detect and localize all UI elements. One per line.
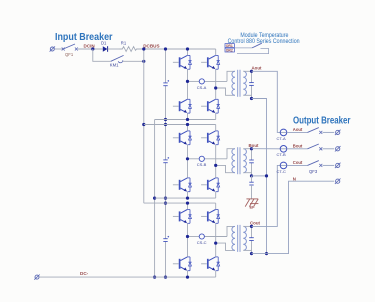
wire bridge A bottom rail bbox=[155, 119, 216, 121]
label DCBUS bbox=[143, 44, 159, 49]
output terminal A bbox=[335, 130, 341, 135]
node C return bbox=[250, 252, 253, 255]
svg-text:CS-A: CS-A bbox=[197, 85, 207, 90]
node bbox=[186, 47, 189, 50]
wire Aout to CT-A bbox=[252, 71, 281, 132]
label CS-A bbox=[197, 85, 207, 90]
title Input Breaker bbox=[55, 32, 113, 43]
svg-text:Cout: Cout bbox=[293, 160, 303, 165]
wire bbox=[93, 49, 111, 61]
wire top rail bbox=[144, 48, 216, 50]
svg-text:Cout: Cout bbox=[250, 221, 261, 226]
wire phase C1 bbox=[188, 226, 235, 236]
wire bbox=[287, 148, 308, 150]
DC- terminal bbox=[34, 275, 39, 280]
node bbox=[164, 118, 167, 121]
capacitor CC output filter bbox=[249, 238, 254, 241]
title Control 880 Series Connection bbox=[228, 38, 300, 45]
breaker QF3 pole B bbox=[308, 144, 323, 150]
transformer TB bbox=[232, 147, 246, 174]
wire bus DC+ distribution bbox=[143, 49, 145, 203]
node bbox=[214, 86, 217, 89]
node bbox=[186, 80, 189, 83]
transistor QB3 igbt bbox=[173, 178, 192, 192]
node Cout bbox=[250, 225, 253, 228]
node bbox=[164, 123, 167, 126]
svg-text:QF1: QF1 bbox=[65, 52, 74, 57]
diode D1 bbox=[103, 46, 108, 52]
node bbox=[265, 174, 268, 177]
node bbox=[142, 47, 145, 50]
wire Bout to CT-B bbox=[252, 148, 281, 150]
wire phase A2 bbox=[216, 88, 235, 95]
wire phase A1 bbox=[188, 71, 235, 81]
capacitor C3 dc-link bbox=[163, 236, 169, 242]
node bbox=[164, 197, 167, 200]
breaker QF3 pole A bbox=[308, 128, 323, 134]
node bbox=[164, 276, 167, 279]
node A return bbox=[250, 97, 253, 100]
wire secondary column bbox=[251, 71, 253, 98]
wire bbox=[323, 164, 335, 166]
node B return bbox=[250, 174, 253, 177]
wire bridge B bottom rail bbox=[155, 197, 216, 199]
svg-text:CT-A: CT-A bbox=[277, 136, 286, 141]
svg-text:DCBUS: DCBUS bbox=[143, 44, 159, 49]
wire bridge A right leg bbox=[215, 49, 217, 120]
contact thermostat bbox=[252, 43, 262, 48]
wire hook bbox=[237, 49, 269, 54]
transistor QB1 igbt bbox=[173, 131, 192, 145]
label D1 bbox=[101, 41, 107, 46]
wire bbox=[287, 164, 308, 166]
wire bridge C left leg bbox=[187, 203, 189, 277]
node bbox=[164, 47, 167, 50]
current sensor CS-C bbox=[199, 234, 204, 239]
capacitor C1 dc-link bbox=[163, 80, 169, 86]
transistor QB4 igbt bbox=[201, 178, 220, 192]
node bbox=[153, 276, 156, 279]
svg-text:CT-B: CT-B bbox=[277, 152, 286, 157]
transistor QA4 igbt bbox=[201, 99, 220, 113]
node bbox=[186, 118, 189, 121]
label Cout bbox=[293, 160, 303, 165]
wire bbox=[287, 131, 308, 133]
svg-text:KM1: KM1 bbox=[110, 63, 119, 68]
label Bout bbox=[249, 143, 260, 148]
svg-text:DC-: DC- bbox=[80, 271, 89, 276]
node bbox=[153, 197, 156, 200]
label Bout bbox=[293, 143, 303, 148]
node bbox=[214, 242, 217, 245]
svg-text:D1: D1 bbox=[101, 41, 107, 46]
node bbox=[186, 197, 189, 200]
wire bbox=[243, 226, 251, 250]
current sensor CS-B bbox=[199, 156, 204, 161]
node Bout bbox=[250, 147, 253, 150]
label QF3 bbox=[309, 169, 318, 174]
wire bus return distribution bbox=[154, 120, 156, 278]
label DCIN bbox=[84, 44, 96, 49]
node bbox=[186, 157, 189, 160]
node Aout bbox=[250, 70, 253, 73]
label CT-A bbox=[277, 136, 286, 141]
transistor QC1 igbt bbox=[173, 210, 192, 224]
label EF bbox=[250, 205, 256, 210]
wire secondary column bbox=[251, 226, 253, 253]
node bbox=[186, 123, 189, 126]
input terminal bbox=[50, 46, 55, 51]
wire DC- rail bbox=[39, 276, 215, 278]
ground EF chassis bbox=[245, 199, 258, 207]
connector OR1 bbox=[225, 44, 234, 48]
wire bridge B right leg bbox=[215, 125, 217, 199]
capacitor C2 dc-link bbox=[163, 157, 169, 163]
transistor QA3 igbt bbox=[173, 99, 192, 113]
wire bbox=[234, 47, 252, 49]
wire phase B2 bbox=[216, 165, 235, 172]
wire secondary column bbox=[251, 149, 253, 176]
wire phase B1 bbox=[188, 149, 235, 159]
transistor QC4 igbt bbox=[201, 257, 220, 271]
node DCIN junction bbox=[91, 47, 94, 50]
title Output Breaker bbox=[293, 116, 351, 127]
svg-text:CS-B: CS-B bbox=[197, 162, 207, 167]
label KM1 bbox=[110, 63, 119, 68]
label QF1 bbox=[65, 52, 74, 57]
svg-text:N: N bbox=[293, 176, 296, 181]
wire bbox=[251, 176, 253, 182]
svg-text:Control 880 Series Connection: Control 880 Series Connection bbox=[228, 38, 300, 45]
wire Cout to CT-C bbox=[252, 165, 281, 226]
capacitor CA output filter bbox=[249, 83, 254, 86]
wire bbox=[243, 149, 251, 173]
label R1 bbox=[121, 41, 127, 46]
wire bbox=[323, 131, 335, 133]
output terminal N bbox=[335, 179, 341, 184]
node bbox=[214, 164, 217, 167]
wire bridge C right leg bbox=[215, 203, 217, 277]
node bbox=[186, 235, 189, 238]
label DC- bbox=[80, 271, 89, 276]
node bbox=[265, 252, 268, 255]
label Aout bbox=[252, 66, 263, 71]
title Module Temperature bbox=[240, 32, 288, 39]
svg-text:Aout: Aout bbox=[252, 66, 263, 71]
svg-text:Bout: Bout bbox=[249, 143, 260, 148]
svg-text:QF3: QF3 bbox=[309, 169, 318, 174]
wire bbox=[55, 48, 64, 50]
svg-text:Output Breaker: Output Breaker bbox=[293, 116, 351, 127]
svg-text:Bout: Bout bbox=[293, 143, 303, 148]
svg-text:EF: EF bbox=[250, 205, 256, 210]
label CS-C bbox=[197, 240, 207, 245]
wire bridge A left leg bbox=[187, 49, 189, 120]
wire bbox=[251, 185, 253, 199]
current transformer CT-A bbox=[280, 129, 287, 136]
transistor QC2 igbt bbox=[201, 210, 220, 224]
wire B return bbox=[252, 175, 267, 177]
wire bbox=[243, 71, 251, 95]
wire bbox=[108, 48, 120, 50]
contact KM1 bbox=[111, 55, 124, 62]
breaker QF3 pole C bbox=[308, 161, 323, 167]
node bbox=[142, 123, 145, 126]
wire phase C2 bbox=[216, 243, 235, 250]
wire bridge B left leg bbox=[187, 125, 189, 199]
svg-text:OR1: OR1 bbox=[226, 44, 233, 48]
label CT-C bbox=[277, 169, 286, 174]
transformer TA bbox=[232, 70, 246, 97]
label Aout bbox=[293, 127, 303, 132]
node bbox=[186, 276, 189, 279]
wire bridge B top rail bbox=[144, 124, 216, 126]
node bbox=[186, 202, 189, 205]
transistor QA1 igbt bbox=[173, 55, 192, 69]
label CT-B bbox=[277, 152, 286, 157]
connector OR2 bbox=[225, 48, 234, 52]
wire bbox=[78, 48, 103, 50]
current transformer CT-C bbox=[280, 162, 287, 169]
svg-text:OR2: OR2 bbox=[226, 48, 233, 52]
svg-text:R1: R1 bbox=[121, 41, 127, 46]
transistor QA2 igbt bbox=[201, 55, 220, 69]
transformer TC bbox=[232, 225, 246, 252]
label CS-B bbox=[197, 162, 207, 167]
wire bbox=[123, 60, 144, 62]
svg-text:Aout: Aout bbox=[293, 127, 303, 132]
breaker QF1 bbox=[62, 44, 78, 51]
node bbox=[164, 202, 167, 205]
svg-text:CS-C: CS-C bbox=[197, 240, 207, 245]
capacitor EF bbox=[249, 182, 253, 185]
resistor R1 bbox=[120, 47, 144, 52]
current sensor CS-A bbox=[199, 79, 204, 84]
capacitor CB output filter bbox=[249, 160, 254, 163]
wire N bus bbox=[252, 99, 267, 254]
label N bbox=[293, 176, 296, 181]
transistor QC3 igbt bbox=[173, 257, 192, 271]
wire C return to N bbox=[252, 181, 335, 253]
current transformer CT-B bbox=[280, 146, 287, 153]
node KM1-DCBUS bbox=[142, 60, 145, 63]
wire bbox=[323, 148, 335, 150]
wire capacitor bus bbox=[165, 49, 167, 277]
output terminal C bbox=[335, 163, 341, 168]
output terminal B bbox=[335, 146, 341, 151]
svg-text:CT-C: CT-C bbox=[277, 169, 286, 174]
label Cout bbox=[250, 221, 261, 226]
wire bridge C top rail bbox=[144, 202, 216, 204]
transistor QB2 igbt bbox=[201, 131, 220, 145]
